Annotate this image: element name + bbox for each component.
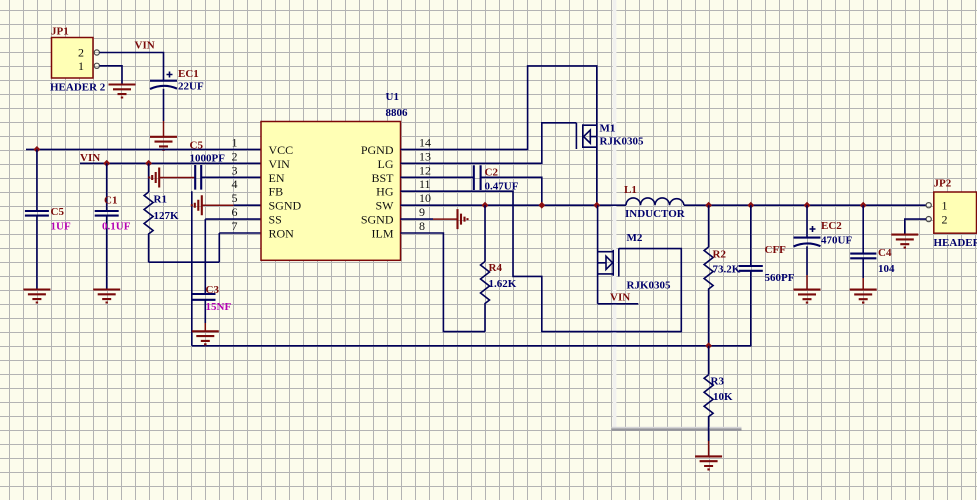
svg-text:HEADER 2: HEADER 2 (934, 237, 977, 249)
svg-text:ILM: ILM (372, 227, 394, 241)
capacitor C2 0.47UF (474, 165, 519, 192)
junction SW/M1-M2 (593, 202, 600, 209)
sheet boundary vertical white line (613, 0, 617, 428)
U1 pin 3 (232, 163, 285, 185)
svg-text:22UF: 22UF (178, 81, 204, 93)
capacitor EC2 470UF (794, 205, 853, 289)
wire FB vertical and feedback bus (192, 191, 752, 346)
wire pin12 BST to C2 (401, 176, 474, 178)
U1 pin 2 (232, 149, 291, 171)
junction R3 top (705, 342, 712, 349)
svg-text:HG: HG (376, 185, 394, 199)
wire JP1 pin2 to VIN/EC1 (99, 53, 163, 81)
capacitor EC1 (150, 68, 204, 93)
capacitor CFF 560PF (739, 205, 795, 346)
svg-text:HEADER 2: HEADER 2 (50, 82, 106, 94)
wire pin14 PGND loop to M1 drain (401, 66, 597, 205)
U1 pin 10 (376, 191, 432, 213)
wire pin3 ground lead (159, 177, 195, 179)
svg-text:RJK0305: RJK0305 (627, 280, 672, 292)
svg-text:0.1UF: 0.1UF (102, 221, 131, 233)
net label VIN (top) (135, 40, 155, 52)
U1 pin 6 (232, 205, 282, 227)
U1 pin 13 (378, 149, 432, 171)
svg-text:SW: SW (376, 199, 395, 213)
svg-text:EC2: EC2 (821, 220, 842, 232)
ground below C5 (23, 290, 50, 303)
svg-text:11: 11 (419, 177, 431, 191)
capacitor C1 0.1UF (95, 163, 131, 289)
svg-text:8: 8 (419, 219, 425, 233)
svg-text:C5: C5 (51, 206, 65, 218)
junction CFF top (747, 202, 754, 209)
svg-text:VIN: VIN (610, 292, 630, 304)
ground below EC2 (794, 290, 821, 303)
svg-text:BST: BST (371, 171, 394, 185)
svg-text:15NF: 15NF (206, 301, 232, 313)
svg-text:10: 10 (419, 191, 431, 205)
U1 pin 8 (372, 219, 426, 241)
U1 pin 1 (232, 135, 294, 157)
ground below C4 (850, 290, 877, 303)
wire pin9 SGND lead (401, 218, 458, 220)
svg-text:JP1: JP1 (51, 26, 69, 38)
svg-text:8806: 8806 (386, 107, 409, 119)
wire pin11 HG to M2 gate (401, 191, 682, 331)
ground at pin5 SGND (sideways) (192, 195, 202, 215)
svg-text:2: 2 (78, 46, 84, 60)
resistor R1 127K (144, 163, 179, 262)
svg-text:1UF: 1UF (51, 221, 71, 233)
svg-text:LG: LG (378, 157, 394, 171)
svg-text:7: 7 (232, 219, 238, 233)
svg-text:10K: 10K (713, 391, 733, 403)
svg-text:14: 14 (419, 135, 431, 149)
transistor M2 RJK0305 (598, 205, 671, 304)
svg-text:2: 2 (942, 213, 948, 227)
svg-text:SS: SS (269, 213, 282, 227)
ground at pin3 EN (sideways) (149, 168, 159, 188)
junction C4 top (860, 202, 867, 209)
svg-text:R4: R4 (489, 262, 503, 274)
svg-text:VIN: VIN (80, 152, 100, 164)
capacitor C5 1UF (25, 149, 71, 289)
svg-text:RON: RON (269, 227, 295, 241)
net label VIN (bus) (80, 152, 100, 164)
wire L1 to JP2 pin1 (684, 204, 926, 206)
svg-text:EC1: EC1 (178, 68, 199, 80)
junction on VCC bus (34, 146, 41, 153)
inductor L1 (624, 184, 686, 220)
wire VIN row (pin 2) (80, 162, 261, 164)
svg-text:R2: R2 (713, 249, 727, 261)
svg-text:4: 4 (232, 177, 238, 191)
wire pin8 ILM down and right (401, 233, 486, 332)
resistor R4 1.62K (481, 205, 517, 331)
svg-text:R3: R3 (711, 376, 725, 388)
op-amp U1 8806 (261, 91, 408, 260)
wire JP1 pin1 to ground (99, 66, 122, 85)
ground at JP1 pin1 (109, 85, 136, 98)
svg-text:VIN: VIN (135, 40, 155, 52)
ground at JP2 pin2 (891, 235, 918, 248)
junction SW/C2 (538, 202, 545, 209)
wire pin10 SW row (401, 204, 627, 206)
sheet boundary gray horizontal line (612, 427, 742, 431)
ground below EC1 (150, 137, 177, 150)
svg-text:C3: C3 (206, 284, 220, 296)
svg-text:M2: M2 (627, 232, 643, 244)
capacitor C3 15NF (192, 284, 232, 331)
svg-text:3: 3 (232, 163, 238, 177)
svg-text:CFF: CFF (765, 244, 787, 256)
junction VIN/R1 (145, 160, 152, 167)
wire JP2 pin2 to ground (905, 219, 926, 235)
svg-text:R1: R1 (154, 194, 167, 206)
U1 pin 11 (376, 177, 430, 199)
svg-text:FB: FB (269, 185, 284, 199)
svg-text:C1: C1 (104, 195, 117, 207)
svg-text:12: 12 (419, 163, 431, 177)
U1 pin 5 (232, 191, 302, 213)
svg-text:73.2K: 73.2K (713, 264, 741, 276)
svg-text:JP2: JP2 (934, 178, 952, 190)
ground at pin9 (sideways right) (458, 209, 468, 229)
svg-text:104: 104 (878, 263, 895, 275)
svg-text:1000PF: 1000PF (190, 153, 226, 165)
svg-text:1: 1 (942, 199, 948, 213)
connector JP1 (50, 26, 106, 94)
svg-text:INDUCTOR: INDUCTOR (625, 208, 686, 220)
svg-text:VIN: VIN (269, 157, 291, 171)
net label VIN (M2) (610, 292, 630, 304)
wire C2 to SW (481, 177, 542, 205)
svg-text:560PF: 560PF (765, 272, 795, 284)
svg-text:C5: C5 (190, 140, 204, 152)
junction SW/R2 (705, 202, 712, 209)
svg-text:2: 2 (232, 149, 238, 163)
wire pin5 ground lead (202, 204, 261, 206)
wire EC1 to ground (163, 89, 165, 137)
U1 pin 12 (371, 163, 431, 185)
svg-text:U1: U1 (386, 91, 399, 103)
capacitor C4 104 (850, 205, 895, 289)
ground below R3 (695, 456, 722, 469)
U1 pin 4 (232, 177, 284, 199)
junction VIN/C1 (103, 160, 110, 167)
svg-text:13: 13 (419, 149, 431, 163)
svg-text:M1: M1 (600, 123, 616, 135)
svg-text:1: 1 (232, 135, 238, 149)
svg-text:470UF: 470UF (821, 235, 852, 247)
U1 pin 9 (361, 205, 425, 227)
junction EC2 top (804, 202, 811, 209)
resistor R3 10K (704, 346, 733, 457)
svg-text:127K: 127K (154, 210, 180, 222)
transistor M1 RJK0305 (576, 123, 644, 150)
svg-text:SGND: SGND (269, 199, 302, 213)
U1 pin 14 (361, 135, 431, 157)
wire SS vertical (205, 219, 261, 294)
wire VCC top bus (pin 1) (26, 148, 261, 150)
junction SW/R4 (482, 202, 489, 209)
svg-text:9: 9 (419, 205, 425, 219)
svg-text:1.62K: 1.62K (489, 278, 517, 290)
wire pin13 LG to M1 gate (401, 123, 577, 164)
U1 pin 7 (232, 219, 295, 241)
ground below C3 (192, 331, 219, 344)
svg-text:6: 6 (232, 205, 238, 219)
resistor R2 73.2K (704, 205, 741, 346)
svg-text:L1: L1 (624, 184, 637, 196)
svg-text:PGND: PGND (361, 143, 394, 157)
connector JP2 (926, 178, 977, 250)
svg-text:VCC: VCC (269, 143, 294, 157)
ground below C1 (93, 290, 120, 303)
svg-text:SGND: SGND (361, 213, 394, 227)
capacitor C5 1000PF (190, 140, 262, 190)
svg-text:1: 1 (78, 59, 84, 73)
svg-text:RJK0305: RJK0305 (600, 136, 645, 148)
svg-text:EN: EN (269, 171, 285, 185)
svg-text:C4: C4 (878, 247, 892, 259)
wire RON row (149, 233, 261, 262)
svg-text:5: 5 (232, 191, 238, 205)
